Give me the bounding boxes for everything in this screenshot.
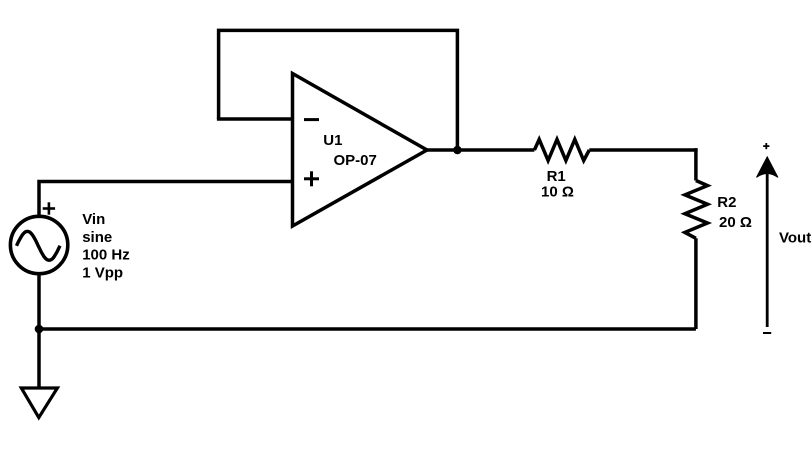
svg-text:sine: sine <box>82 229 112 246</box>
svg-text:Vout: Vout <box>779 230 811 247</box>
svg-text:Vin: Vin <box>82 211 105 228</box>
svg-text:20 Ω: 20 Ω <box>719 214 752 231</box>
svg-text:100 Hz: 100 Hz <box>82 247 130 264</box>
svg-text:1 Vpp: 1 Vpp <box>82 264 123 281</box>
svg-text:R2: R2 <box>717 194 736 211</box>
svg-text:R1: R1 <box>547 168 566 185</box>
svg-text:10 Ω: 10 Ω <box>541 184 574 201</box>
svg-text:U1: U1 <box>323 132 342 149</box>
svg-text:OP-07: OP-07 <box>334 152 377 169</box>
